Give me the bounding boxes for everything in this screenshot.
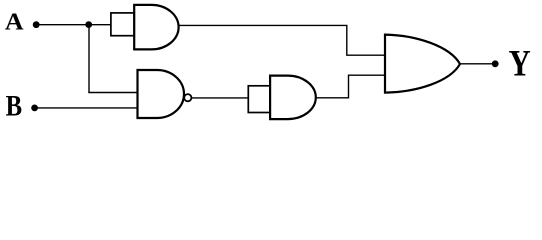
wire: U2 output to AND U3 tie box [191,97,248,99]
wire: junction down to NAND U2 row [88,25,90,93]
AND gate U1 input tie box [111,13,134,36]
wire: U4 output to Y terminal [459,63,495,65]
wire: A terminal to AND U1 tie box [36,24,111,26]
wire: A branch to NAND U2 upper input [88,92,137,94]
NAND U2 output bubble [184,94,191,101]
svg-text:A: A [5,9,24,35]
AND gate U3 input tie box [248,86,270,113]
AND gate U4 (output gate) [385,35,460,93]
AND gate U1 [134,5,178,50]
junction: node A branch [85,21,92,28]
output terminal Y [492,60,499,67]
svg-text:Y: Y [509,44,531,84]
NAND gate U2 [138,70,185,118]
wire: U1 output to gate U4 upper input [179,25,385,55]
wire: B terminal to NAND U2 lower input [35,107,138,109]
AND gate U3 [270,76,316,120]
input terminal B [31,105,38,112]
input terminal A [33,21,40,28]
wire: U3 output to gate U4 lower input [316,75,385,98]
svg-text:B: B [6,90,22,122]
